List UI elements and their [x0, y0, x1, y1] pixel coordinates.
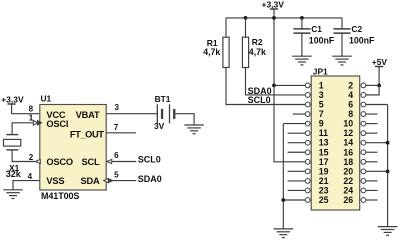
JP1 pin 24 circle	[361, 188, 366, 193]
ground at C2	[332, 56, 352, 65]
JP1 pin 25 circle	[305, 198, 310, 203]
svg-text:18: 18	[343, 157, 353, 167]
wire to JP1 pin 1	[274, 84, 306, 86]
wire JP1 pin 14 to GND bus	[366, 142, 388, 144]
svg-text:7: 7	[319, 109, 324, 119]
supply +5V	[366, 57, 388, 95]
svg-text:12: 12	[343, 128, 353, 138]
wire +5V to pin 2	[366, 84, 380, 86]
ground at C1	[292, 56, 312, 65]
junction GND bus pin 25	[281, 198, 285, 202]
svg-text:3: 3	[319, 90, 324, 100]
wire JP1 pin 22 stub	[366, 180, 378, 182]
wire JP1 pin 12 stub	[366, 132, 378, 134]
wire JP1 pin 10 stub	[366, 123, 378, 125]
JP1 pin 13 circle	[305, 140, 310, 145]
svg-text:2: 2	[29, 153, 34, 162]
wire pin 4 VSS	[13, 181, 40, 190]
3.3V rail wire	[226, 17, 342, 19]
svg-text:SDA0: SDA0	[138, 174, 162, 184]
JP1 pin 3 circle	[305, 93, 310, 98]
svg-text:17: 17	[319, 157, 329, 167]
svg-text:22: 22	[343, 176, 353, 186]
ground at BT1	[184, 125, 204, 134]
bidir arrows pin 5	[104, 179, 109, 183]
JP1 pin 21 circle	[305, 179, 310, 184]
JP1 pin 8 circle	[361, 112, 366, 117]
svg-text:6: 6	[348, 100, 353, 110]
wire JP1 pin 16 stub	[366, 151, 378, 153]
junction GND bus pin 14	[386, 141, 390, 145]
junction rail/R2	[244, 16, 248, 20]
JP1 pin 7 circle	[305, 112, 310, 117]
JP1 pin 26 circle	[361, 198, 366, 203]
svg-text:13: 13	[319, 138, 329, 148]
svg-text:8: 8	[29, 105, 34, 114]
svg-text:JP1: JP1	[313, 66, 328, 76]
wire BT1 to ground	[175, 114, 194, 125]
wire 3.3V down to JP1 pin 1 and pin 17	[274, 18, 306, 162]
svg-text:14: 14	[343, 138, 353, 148]
svg-text:6: 6	[114, 151, 119, 160]
junction +5V at pin 2	[377, 84, 381, 88]
svg-text:24: 24	[343, 185, 353, 195]
wire JP1 pin 21 stub	[288, 180, 306, 182]
svg-text:100nF: 100nF	[309, 35, 335, 45]
svg-text:15: 15	[319, 147, 329, 157]
wire JP1 pin 15 stub	[288, 151, 306, 153]
connector JP1 box	[311, 76, 360, 210]
JP1 pin 17 circle	[305, 159, 310, 164]
resistor R2	[242, 18, 305, 95]
battery BT1	[157, 104, 175, 123]
JP1 pin 14 circle	[361, 140, 366, 145]
svg-text:32k: 32k	[6, 169, 22, 179]
wire JP1 pin 25 to GND bus	[283, 199, 305, 201]
svg-text:VSS: VSS	[46, 176, 64, 186]
wire pin 2 OSCO	[12, 150, 40, 162]
svg-text:BT1: BT1	[155, 94, 171, 104]
JP1 pin 4 circle	[361, 93, 366, 98]
svg-text:21: 21	[319, 176, 329, 186]
svg-text:VBAT: VBAT	[76, 110, 100, 120]
ground right bus	[378, 227, 398, 236]
junction rail/3.3V drop	[272, 16, 276, 20]
JP1 pin 5 circle	[305, 102, 310, 107]
svg-text:19: 19	[319, 166, 329, 176]
input arrow pin 6	[107, 159, 112, 163]
svg-text:25: 25	[319, 195, 329, 205]
clock input arrows pin 1	[33, 120, 41, 125]
svg-text:4: 4	[348, 90, 353, 100]
svg-text:5: 5	[114, 170, 119, 179]
svg-text:16: 16	[343, 147, 353, 157]
wire JP1 pin 23 stub	[288, 189, 306, 191]
JP1 pin 22 circle	[361, 179, 366, 184]
wire pin 6 SCL	[106, 161, 136, 163]
svg-text:2: 2	[348, 80, 353, 90]
svg-text:100nF: 100nF	[349, 35, 375, 45]
svg-text:M41T00S: M41T00S	[41, 191, 79, 201]
JP1 pin 15 circle	[305, 150, 310, 155]
JP1 pin 1 circle	[305, 83, 310, 88]
svg-text:7: 7	[114, 123, 119, 132]
svg-text:OSCO: OSCO	[46, 157, 73, 167]
svg-text:SCL0: SCL0	[248, 95, 271, 105]
svg-text:+3,3V: +3,3V	[262, 0, 285, 10]
svg-text:FT_OUT: FT_OUT	[70, 130, 104, 140]
wire JP1 pin 4 to +5V drop	[366, 94, 380, 96]
crystal X1	[4, 135, 21, 150]
svg-text:R2: R2	[252, 37, 263, 47]
svg-text:+5V: +5V	[372, 57, 388, 67]
wire JP1 pin 20 to GND bus	[366, 170, 388, 172]
junction GND bus pin 20	[386, 169, 390, 173]
svg-text:4,7k: 4,7k	[249, 47, 266, 57]
JP1 pin 12 circle	[361, 131, 366, 136]
svg-text:U1: U1	[41, 94, 52, 104]
output arrow pin 2	[36, 159, 41, 163]
JP1 pin 16 circle	[361, 150, 366, 155]
wire JP1 pin 24 stub	[366, 189, 378, 191]
svg-text:SDA: SDA	[80, 176, 100, 186]
wire pin 5 SDA	[106, 180, 136, 182]
IC U1 box	[40, 105, 106, 191]
wire pin 7 FT_OUT	[106, 132, 136, 134]
svg-text:4,7k: 4,7k	[203, 47, 220, 57]
ground at VSS	[3, 190, 23, 199]
right GND bus wire	[387, 105, 389, 227]
JP1 pin 19 circle	[305, 169, 310, 174]
svg-text:C2: C2	[351, 24, 362, 34]
capacitor C1	[294, 18, 311, 56]
supply +3,3V (right)	[262, 0, 285, 18]
wire JP1 pin 18 stub	[366, 161, 378, 163]
JP1 pin 20 circle	[361, 169, 366, 174]
resistor R1	[223, 18, 306, 105]
wire pin 3 VBAT	[106, 113, 157, 115]
JP1 pin 10 circle	[361, 121, 366, 126]
wire JP1 pin 9 to GND bus	[283, 123, 305, 125]
svg-text:3V: 3V	[154, 121, 165, 131]
capacitor C2	[334, 18, 351, 56]
JP1 pin 23 circle	[305, 188, 310, 193]
left GND bus wire	[282, 124, 284, 229]
svg-text:20: 20	[343, 166, 353, 176]
svg-text:+3,3V: +3,3V	[1, 94, 24, 104]
svg-text:5: 5	[319, 100, 324, 110]
svg-text:SCL: SCL	[82, 157, 101, 167]
svg-text:3: 3	[114, 103, 119, 112]
JP1 pin 2 circle	[361, 83, 366, 88]
ground left bus	[274, 229, 294, 238]
svg-text:8: 8	[348, 109, 353, 119]
svg-text:9: 9	[319, 119, 324, 129]
junction 3.3V at JP1 pin 1	[272, 84, 276, 88]
JP1 pin 6 circle	[361, 102, 366, 107]
wire JP1 pin 11 stub	[288, 132, 306, 134]
svg-text:SCL0: SCL0	[138, 154, 161, 164]
wire JP1 pin 19 stub	[288, 170, 306, 172]
wire JP1 pin 26 stub	[366, 199, 378, 201]
svg-text:26: 26	[343, 195, 353, 205]
wire JP1 pin 6 to right GND bus	[366, 104, 388, 106]
wire JP1 pin 8 stub	[366, 113, 378, 115]
wire pin 1 OSCI	[12, 123, 40, 135]
JP1 pin 11 circle	[305, 131, 310, 136]
svg-text:11: 11	[319, 128, 328, 138]
JP1 pin 18 circle	[361, 159, 366, 164]
svg-text:OSCI: OSCI	[46, 119, 68, 129]
svg-text:1: 1	[319, 80, 324, 90]
JP1 pin 9 circle	[305, 121, 310, 126]
svg-text:4: 4	[28, 172, 33, 181]
svg-text:C1: C1	[311, 24, 322, 34]
wire JP1 pin 7 stub	[293, 113, 306, 115]
junction rail/C1	[300, 16, 304, 20]
svg-text:23: 23	[319, 185, 329, 195]
supply +3,3V (left)	[1, 94, 39, 113]
wire JP1 pin 13 stub	[288, 142, 306, 144]
svg-text:10: 10	[343, 119, 353, 129]
